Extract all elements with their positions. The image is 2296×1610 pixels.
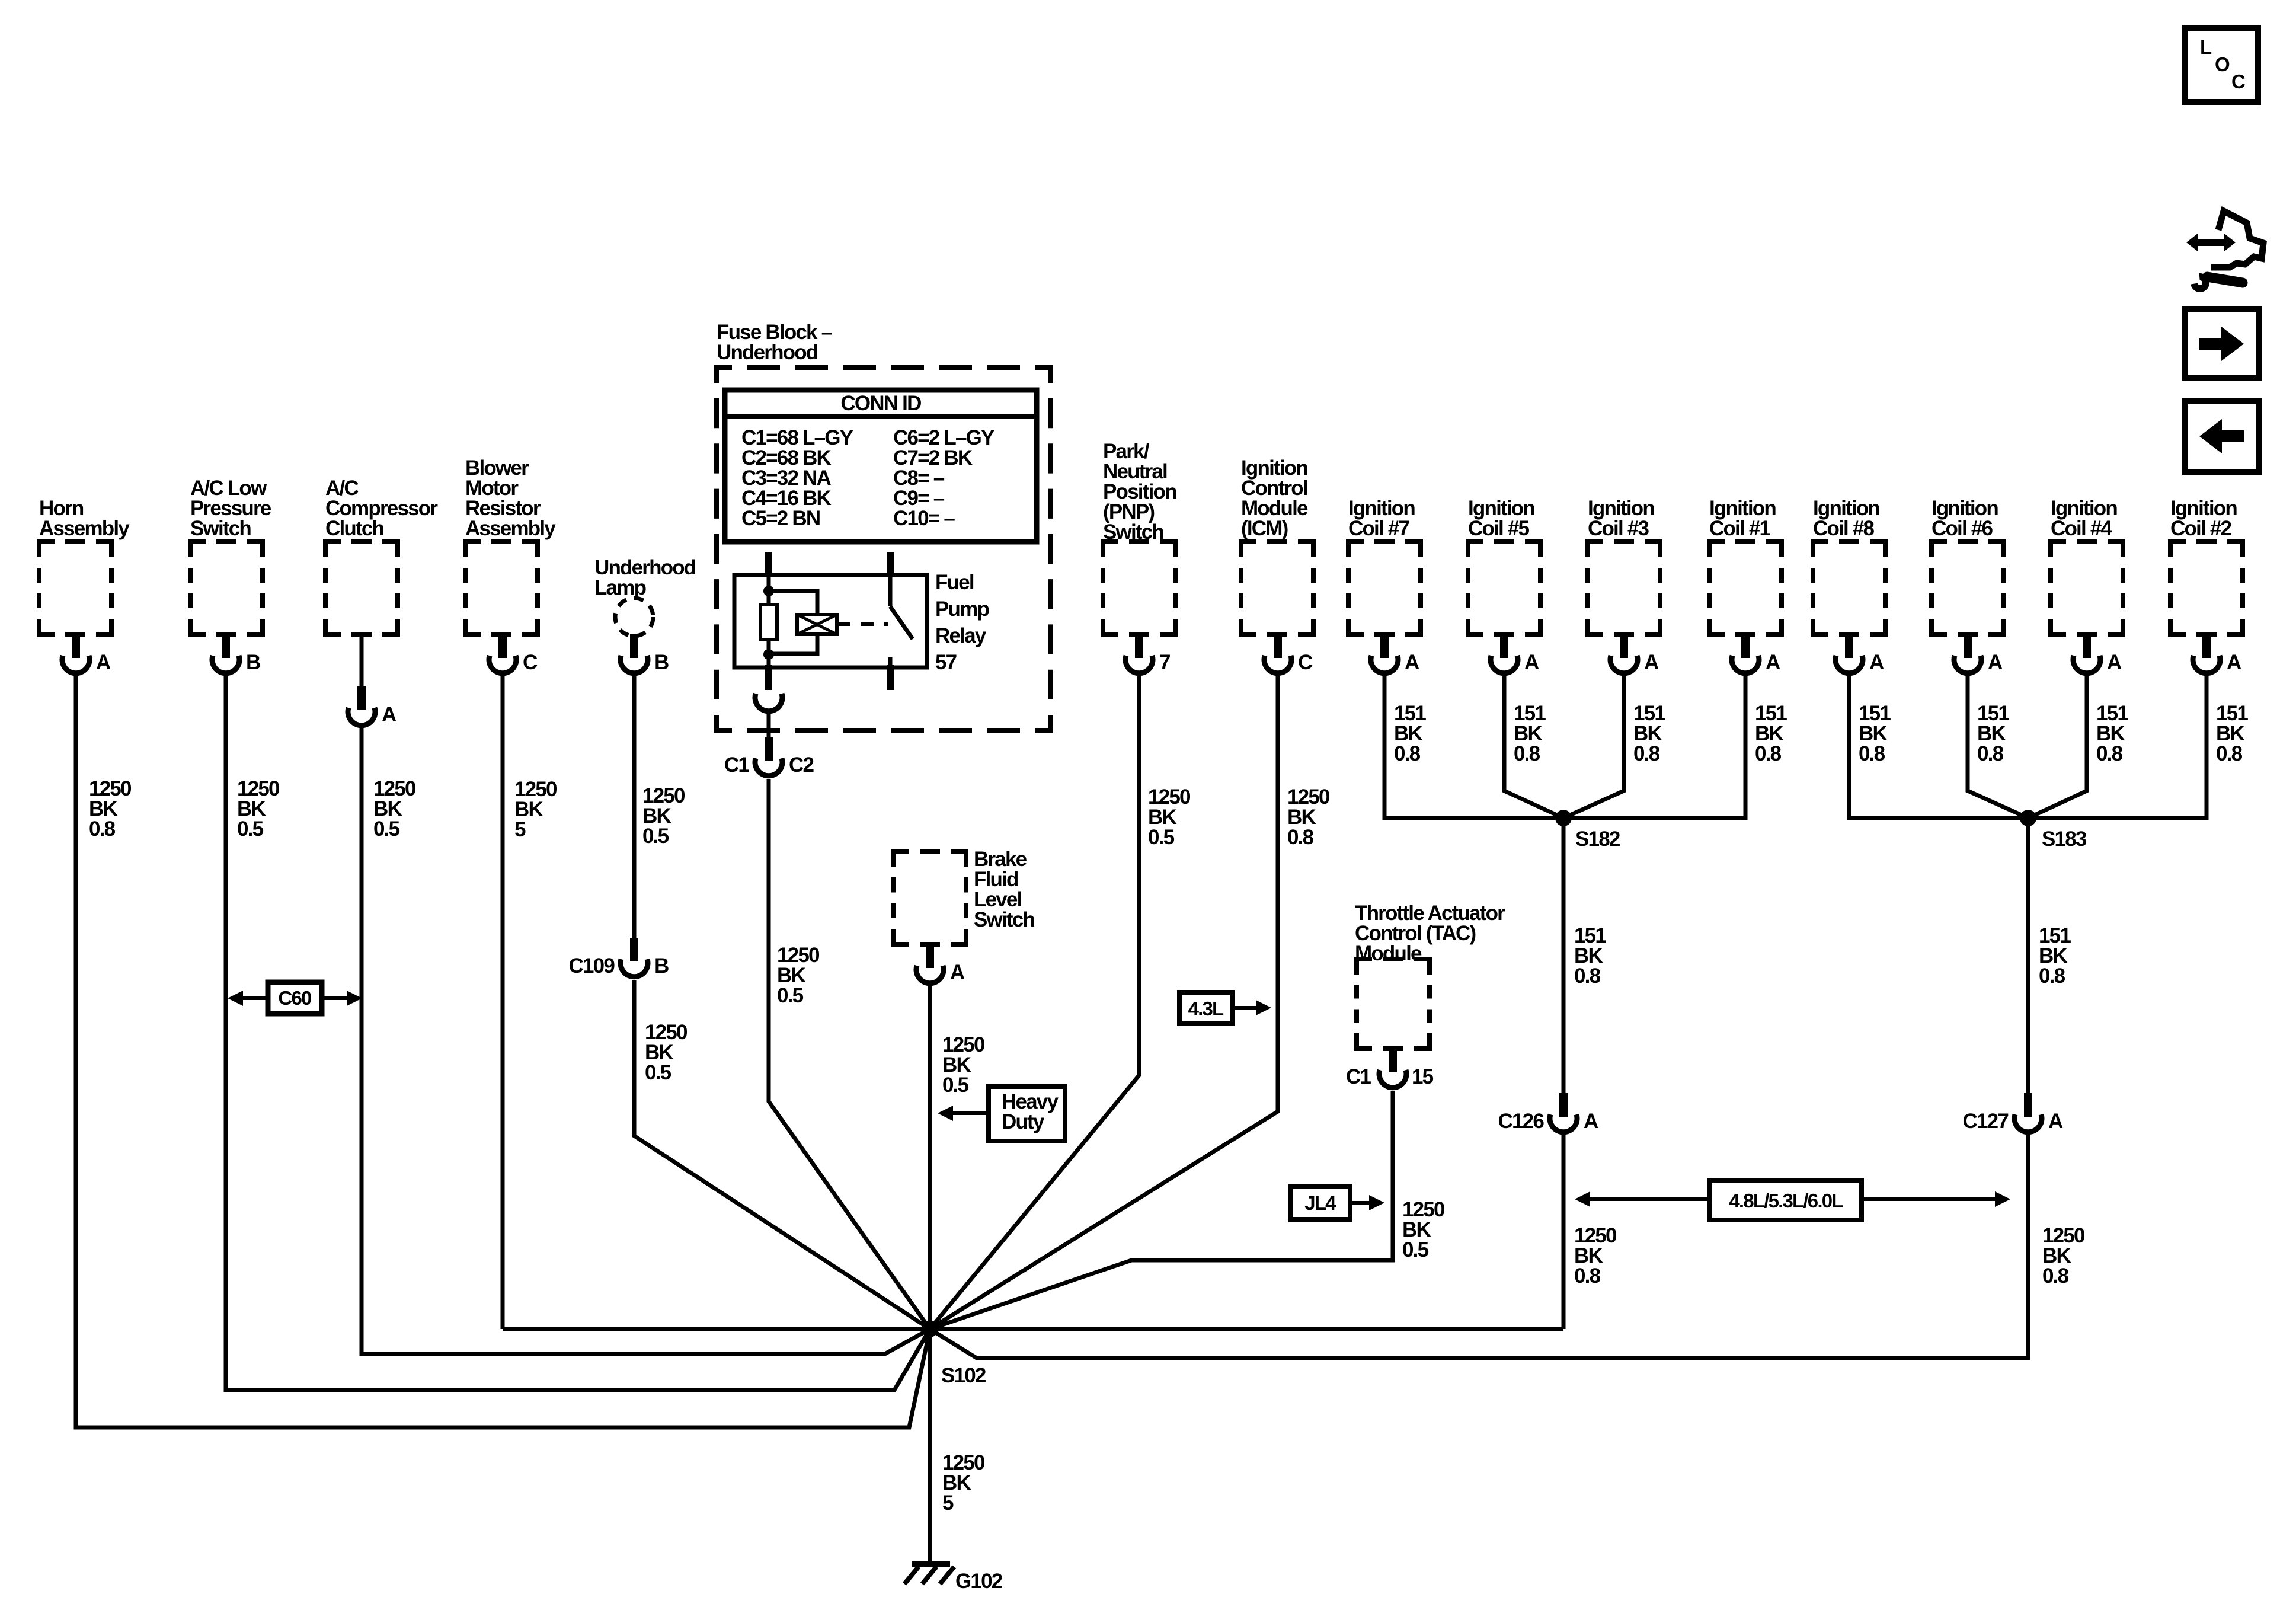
svg-text:A: A: [2048, 1110, 2063, 1133]
svg-text:0.8: 0.8: [2042, 1264, 2069, 1288]
svg-text:A: A: [1766, 651, 1780, 674]
svg-text:0.5: 0.5: [942, 1074, 969, 1097]
svg-text:5: 5: [514, 818, 526, 841]
svg-text:Coil #5: Coil #5: [1468, 517, 1529, 540]
svg-text:B: B: [246, 651, 260, 674]
svg-text:7: 7: [1159, 651, 1170, 674]
svg-text:C: C: [1298, 651, 1313, 674]
svg-text:Coil #7: Coil #7: [1348, 517, 1409, 540]
svg-text:C1: C1: [724, 753, 749, 777]
svg-text:Coil #3: Coil #3: [1588, 517, 1649, 540]
svg-text:L: L: [2200, 36, 2212, 58]
svg-text:0.5: 0.5: [1402, 1238, 1429, 1261]
svg-text:0.5: 0.5: [1148, 826, 1175, 849]
svg-text:G102: G102: [955, 1570, 1003, 1593]
svg-text:0.8: 0.8: [1859, 742, 1885, 765]
svg-text:0.8: 0.8: [1574, 1264, 1601, 1288]
svg-text:C1: C1: [1346, 1065, 1371, 1088]
svg-text:0.8: 0.8: [1977, 742, 2004, 765]
svg-text:4.8L/5.3L/6.0L: 4.8L/5.3L/6.0L: [1729, 1190, 1843, 1212]
svg-text:A: A: [1988, 651, 2003, 674]
svg-text:Switch: Switch: [974, 908, 1034, 931]
svg-text:A: A: [1644, 651, 1659, 674]
svg-text:0.5: 0.5: [642, 825, 669, 848]
svg-text:0.8: 0.8: [1755, 742, 1782, 765]
svg-text:Assembly: Assembly: [465, 517, 556, 540]
svg-text:A: A: [2227, 651, 2241, 674]
svg-text:CONN ID: CONN ID: [840, 392, 921, 415]
svg-text:Coil #8: Coil #8: [1813, 517, 1874, 540]
svg-text:0.5: 0.5: [777, 984, 804, 1007]
svg-text:0.8: 0.8: [1574, 964, 1601, 988]
svg-text:Underhood: Underhood: [717, 341, 818, 364]
svg-text:4.3L: 4.3L: [1188, 998, 1224, 1020]
svg-text:Clutch: Clutch: [325, 517, 384, 540]
svg-text:Module: Module: [1355, 942, 1422, 965]
svg-text:S102: S102: [941, 1364, 986, 1387]
svg-text:0.8: 0.8: [1633, 742, 1660, 765]
svg-text:Coil #2: Coil #2: [2170, 517, 2231, 540]
svg-text:S182: S182: [1575, 828, 1620, 851]
svg-text:Coil #4: Coil #4: [2051, 517, 2112, 540]
svg-text:A: A: [2107, 651, 2122, 674]
svg-text:0.8: 0.8: [1287, 826, 1314, 849]
svg-text:0.8: 0.8: [89, 817, 116, 841]
svg-text:0.5: 0.5: [237, 817, 264, 841]
svg-text:Switch: Switch: [190, 517, 251, 540]
svg-text:Coil #1: Coil #1: [1709, 517, 1770, 540]
svg-text:0.8: 0.8: [1514, 742, 1540, 765]
svg-text:C10= –: C10= –: [893, 507, 955, 530]
svg-text:0.5: 0.5: [645, 1061, 671, 1084]
svg-text:Pump: Pump: [935, 598, 989, 621]
svg-text:0.8: 0.8: [2096, 742, 2123, 765]
svg-text:Duty: Duty: [1002, 1110, 1045, 1133]
svg-text:A: A: [96, 651, 111, 674]
svg-text:A: A: [1524, 651, 1539, 674]
svg-text:A: A: [1869, 651, 1884, 674]
svg-text:0.8: 0.8: [2216, 742, 2243, 765]
svg-text:5: 5: [942, 1491, 954, 1515]
svg-text:A: A: [382, 703, 396, 726]
svg-text:S183: S183: [2042, 828, 2087, 851]
svg-text:Assembly: Assembly: [39, 517, 130, 540]
svg-text:C109: C109: [569, 954, 615, 977]
svg-text:JL4: JL4: [1304, 1192, 1336, 1214]
svg-text:C60: C60: [278, 987, 311, 1009]
svg-text:A: A: [1584, 1110, 1598, 1133]
svg-text:O: O: [2215, 53, 2230, 75]
svg-text:Fuel: Fuel: [935, 571, 974, 594]
svg-text:C: C: [2231, 71, 2245, 92]
svg-text:Switch: Switch: [1103, 520, 1163, 544]
svg-text:C5=2 BN: C5=2 BN: [741, 507, 820, 530]
svg-text:15: 15: [1412, 1065, 1434, 1088]
svg-text:A: A: [950, 961, 965, 984]
svg-text:57: 57: [935, 651, 957, 674]
svg-text:B: B: [654, 954, 669, 977]
svg-text:Relay: Relay: [935, 624, 987, 647]
svg-text:0.8: 0.8: [2039, 964, 2065, 988]
svg-text:Coil #6: Coil #6: [1932, 517, 1993, 540]
svg-text:C: C: [523, 651, 538, 674]
svg-text:C127: C127: [1963, 1110, 2009, 1133]
svg-text:0.5: 0.5: [373, 817, 400, 841]
svg-text:B: B: [654, 651, 669, 674]
svg-text:0.8: 0.8: [1394, 742, 1421, 765]
svg-text:A: A: [1405, 651, 1419, 674]
svg-text:C126: C126: [1498, 1110, 1544, 1133]
svg-text:Lamp: Lamp: [594, 576, 646, 599]
svg-text:(ICM): (ICM): [1241, 517, 1288, 540]
svg-text:C2: C2: [789, 753, 814, 777]
